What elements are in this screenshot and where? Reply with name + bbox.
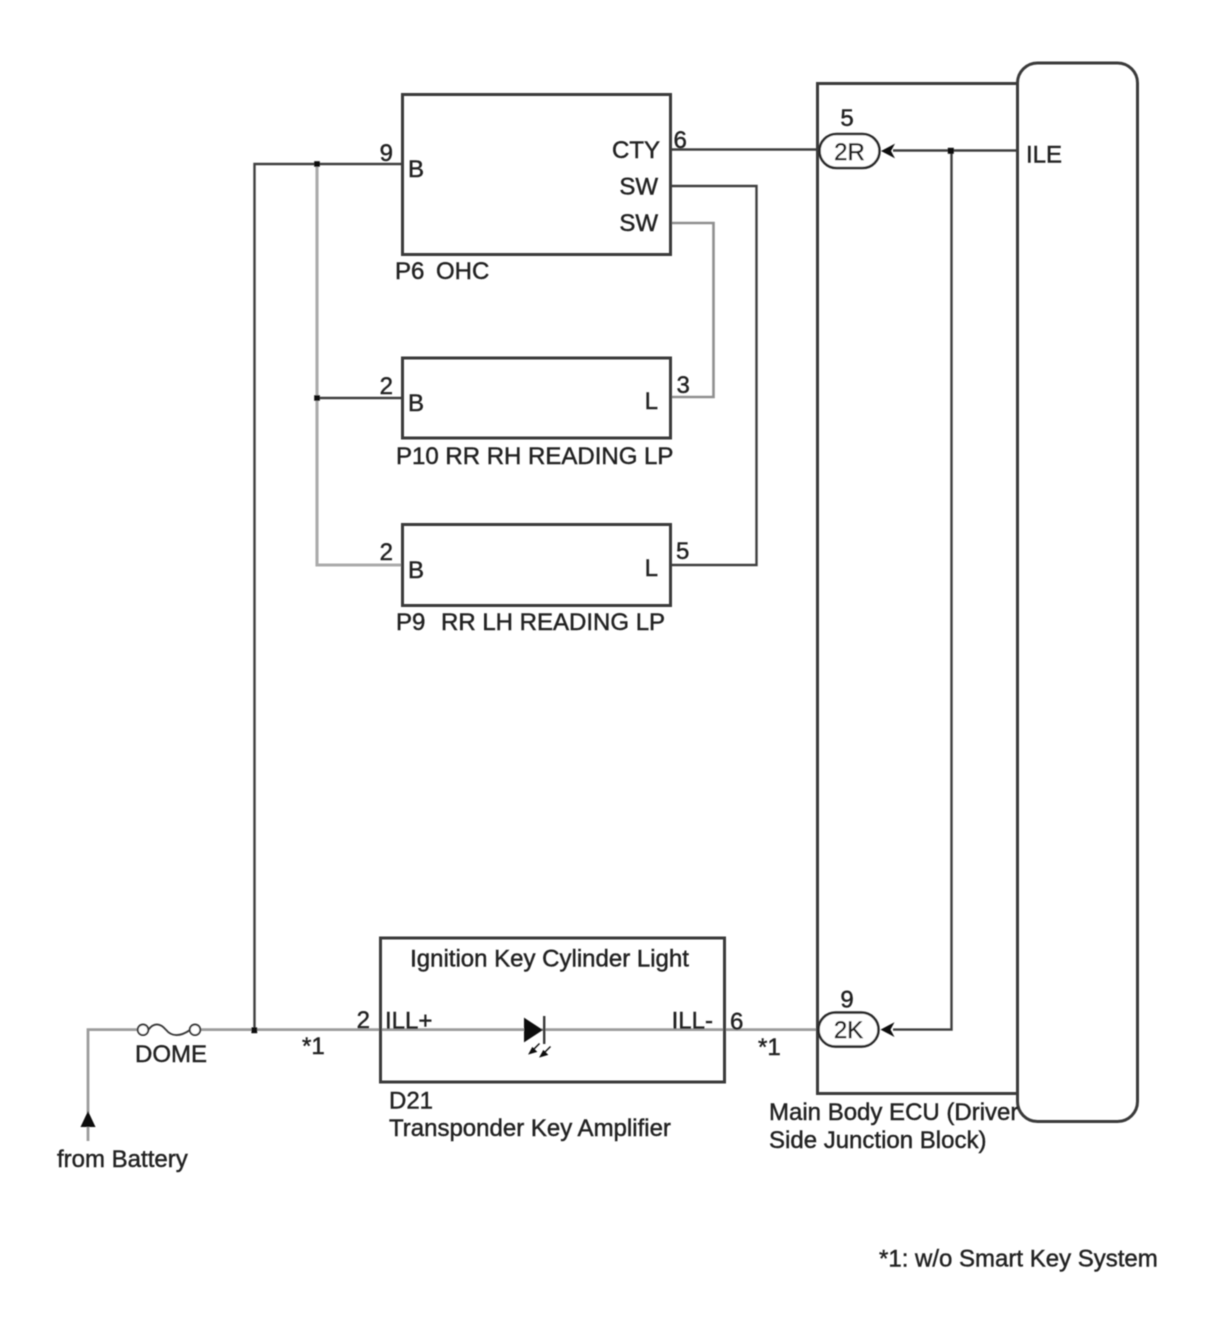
svg-text:L: L xyxy=(645,555,658,582)
svg-text:D21: D21 xyxy=(389,1088,433,1115)
svg-text:B: B xyxy=(408,390,424,417)
svg-text:L: L xyxy=(645,388,658,415)
svg-text:SW: SW xyxy=(619,174,658,201)
svg-text:ILE: ILE xyxy=(1026,142,1062,169)
svg-text:ILL+: ILL+ xyxy=(385,1008,432,1035)
svg-text:2: 2 xyxy=(357,1007,370,1034)
svg-text:Side Junction Block): Side Junction Block) xyxy=(769,1127,986,1154)
svg-text:OHC: OHC xyxy=(436,258,489,285)
svg-text:5: 5 xyxy=(676,538,689,565)
svg-text:P6: P6 xyxy=(395,258,424,285)
svg-text:*1: *1 xyxy=(758,1034,781,1061)
svg-text:B: B xyxy=(408,156,424,183)
svg-text:3: 3 xyxy=(677,372,690,399)
svg-text:Main Body ECU (Driver: Main Body ECU (Driver xyxy=(769,1099,1018,1126)
svg-text:2R: 2R xyxy=(834,139,865,166)
svg-text:DOME: DOME xyxy=(135,1041,207,1068)
svg-text:6: 6 xyxy=(730,1009,743,1036)
svg-text:CTY: CTY xyxy=(612,137,660,164)
svg-text:2K: 2K xyxy=(834,1017,863,1044)
svg-text:Transponder Key Amplifier: Transponder Key Amplifier xyxy=(389,1115,671,1142)
svg-text:P10 RR RH READING LP: P10 RR RH READING LP xyxy=(396,443,673,470)
svg-text:RR LH READING LP: RR LH READING LP xyxy=(441,609,665,636)
svg-text:ILL-: ILL- xyxy=(672,1008,713,1035)
svg-text:B: B xyxy=(408,557,424,584)
svg-text:SW: SW xyxy=(619,210,658,237)
svg-text:9: 9 xyxy=(840,987,853,1014)
svg-text:*1: w/o Smart Key System: *1: w/o Smart Key System xyxy=(879,1246,1158,1273)
svg-text:2: 2 xyxy=(380,373,393,400)
svg-text:Ignition Key Cylinder Light: Ignition Key Cylinder Light xyxy=(410,946,689,973)
svg-text:P9: P9 xyxy=(396,609,425,636)
svg-text:from Battery: from Battery xyxy=(57,1146,188,1173)
svg-text:*1: *1 xyxy=(302,1033,325,1060)
svg-text:2: 2 xyxy=(380,539,393,566)
svg-text:5: 5 xyxy=(840,105,853,132)
svg-text:9: 9 xyxy=(380,140,393,167)
svg-text:6: 6 xyxy=(674,127,687,154)
